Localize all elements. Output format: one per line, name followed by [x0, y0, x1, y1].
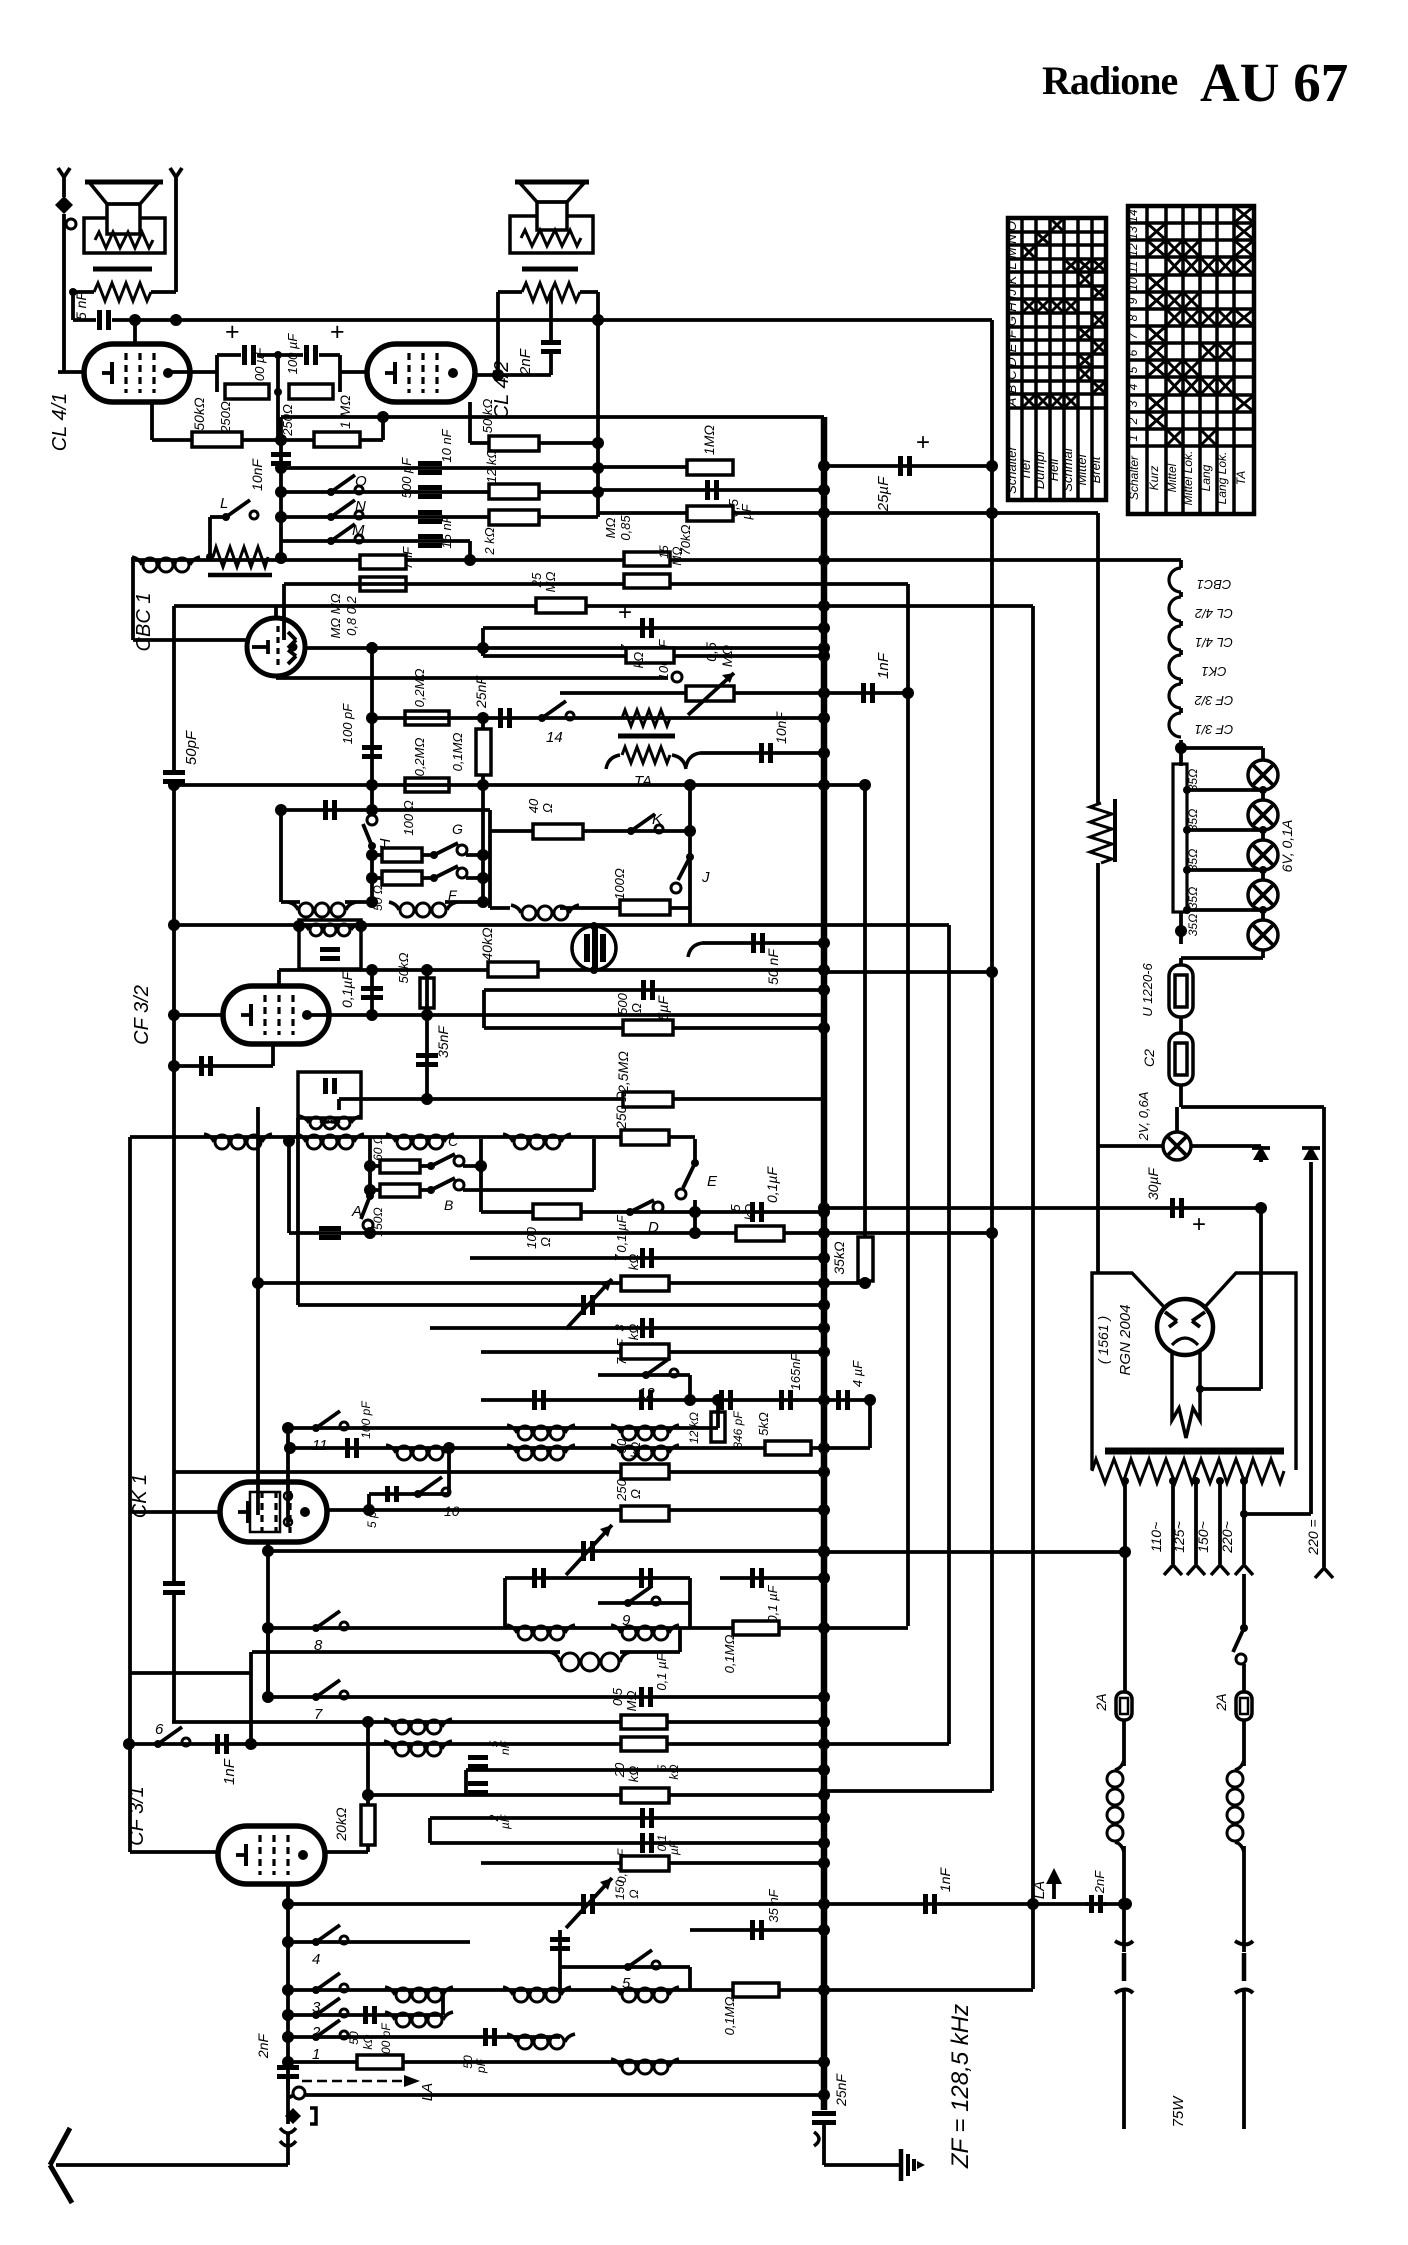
svg-text:0,2MΩ: 0,2MΩ	[412, 737, 427, 776]
x1324 vertical	[1322, 1107, 1326, 1567]
connector arrow 1	[1259, 1146, 1263, 1162]
svg-text:9: 9	[1126, 297, 1140, 304]
tap common x1125	[1121, 1477, 1129, 1485]
vertical x372 upper	[370, 642, 374, 785]
box CBC1 left	[131, 557, 135, 640]
wire row y517 with switch N	[281, 515, 598, 519]
CK1 grid row	[130, 1510, 220, 1514]
row y1212	[481, 1210, 824, 1214]
coupling network left rail	[215, 355, 219, 392]
vertical x284	[282, 584, 286, 640]
lamp 2V 0,6A	[1175, 1107, 1179, 1132]
resistor 70kOhm	[687, 506, 733, 521]
svg-text:50pF: 50pF	[183, 730, 200, 765]
svg-text:2A: 2A	[1093, 1693, 1109, 1711]
row y1795	[368, 1793, 824, 1797]
svg-text:6V, 0,1A: 6V, 0,1A	[1279, 820, 1295, 873]
svg-text:C2: C2	[1141, 1049, 1157, 1067]
capacitor 7nF	[418, 534, 442, 539]
row y902 coils	[288, 902, 298, 910]
resistor 250 Ohm left	[225, 384, 269, 399]
svg-text:Ω: Ω	[540, 803, 555, 813]
svg-text:15: 15	[657, 545, 671, 559]
svg-text:6: 6	[1126, 349, 1140, 356]
svg-text:Hell: Hell	[1046, 458, 1061, 482]
svg-text:4: 4	[312, 1951, 320, 1968]
svg-text:0,1 µF: 0,1 µF	[654, 1652, 669, 1690]
wire row y417	[281, 415, 824, 419]
svg-text:0,1MΩ: 0,1MΩ	[722, 1996, 737, 2035]
switch D	[626, 1208, 634, 1216]
row y1107	[1181, 1105, 1324, 1109]
svg-text:K: K	[1004, 274, 1019, 284]
bus bottom to ground	[824, 2163, 899, 2167]
pilot lamps 6V 0,1A	[1181, 746, 1263, 750]
svg-text:125~: 125~	[1171, 1521, 1187, 1553]
svg-text:35Ω: 35Ω	[1186, 914, 1200, 936]
LA arrow	[302, 2080, 408, 2083]
switch E vertical	[693, 1139, 697, 1160]
choke coil row y557	[132, 557, 142, 565]
node H1 x598	[592, 314, 604, 326]
svg-text:500: 500	[615, 992, 630, 1014]
capacitor 25nF	[498, 708, 503, 728]
svg-text:+: +	[330, 318, 345, 346]
switch C	[427, 1162, 435, 1170]
svg-text:IJ: IJ	[1004, 288, 1019, 299]
resistor 0,1MOhm vertical x483	[481, 718, 485, 785]
capacitor 1nF row y1744	[215, 1734, 220, 1754]
svg-text:4: 4	[1126, 383, 1140, 390]
row y1328	[430, 1326, 824, 1330]
svg-text:U 1220-6: U 1220-6	[1140, 962, 1155, 1016]
wire row y606	[174, 604, 1033, 608]
svg-text:O: O	[355, 473, 367, 490]
svg-text:ZF = 128,5 kHz: ZF = 128,5 kHz	[947, 2004, 974, 2169]
resistor 15MOhm	[624, 574, 670, 588]
jack circle	[293, 2087, 305, 2099]
row y990 cap 0,5uF	[484, 988, 824, 992]
capacitor 10nF row y753	[700, 751, 824, 755]
CBC1 cathode row y648	[305, 646, 824, 650]
resistor 50kOhm row y443	[489, 436, 539, 451]
capacitor x174 lower	[172, 1066, 176, 1582]
choke zigzag row y557	[213, 547, 268, 567]
vertical x949	[947, 925, 951, 1744]
svg-text:2nF: 2nF	[1092, 1870, 1107, 1894]
svg-text:10nF: 10nF	[249, 458, 265, 491]
svg-text:12 kΩ: 12 kΩ	[484, 449, 499, 484]
row y1747	[129, 1742, 824, 1746]
svg-text:2V, 0,6A: 2V, 0,6A	[1136, 1092, 1151, 1142]
svg-text:CF 3/2: CF 3/2	[131, 985, 153, 1045]
ballast taps	[1183, 786, 1191, 794]
break connector bottom	[814, 2132, 819, 2146]
row y878 resistor 50 Ohm	[372, 876, 434, 880]
vertical x470 y541-560	[468, 541, 472, 560]
svg-text:+: +	[1192, 1211, 1206, 1238]
LS2 secondary zigzag	[522, 283, 580, 301]
svg-text:20kΩ: 20kΩ	[333, 1807, 349, 1842]
wire row y584	[284, 582, 908, 586]
switch F	[434, 866, 458, 878]
svg-text:0,8 0,2: 0,8 0,2	[344, 595, 359, 636]
vertical x690	[688, 785, 692, 925]
switch table 2 (Schalter 1-14 / Kurz..TA)	[1128, 206, 1254, 514]
CL4/1 cathode drop	[150, 402, 154, 440]
switch K	[627, 827, 635, 835]
svg-text:kΩ: kΩ	[631, 652, 646, 669]
vertical x598 collector	[596, 320, 600, 517]
svg-text:Ω: Ω	[538, 1237, 553, 1247]
svg-text:N: N	[355, 498, 366, 515]
svg-text:Tief: Tief	[1018, 458, 1033, 481]
svg-text:CF 3/1: CF 3/1	[1195, 722, 1234, 737]
bus bottom cap 25nF	[812, 2111, 836, 2116]
svg-text:kΩ: kΩ	[742, 1204, 757, 1221]
svg-text:Dumpf: Dumpf	[1032, 449, 1047, 489]
svg-text:14: 14	[546, 729, 563, 746]
row y1904 long	[288, 1902, 1126, 1906]
svg-text:Ω: Ω	[628, 1489, 643, 1499]
svg-text:40kΩ: 40kΩ	[479, 927, 495, 961]
svg-text:1 MΩ: 1 MΩ	[337, 395, 353, 429]
svg-text:250: 250	[614, 1478, 629, 1501]
transformer primary zigzag	[1092, 1459, 1284, 1483]
capacitor 50nF	[702, 941, 824, 945]
LS2 cone	[519, 182, 585, 202]
svg-text:35Ω: 35Ω	[1186, 887, 1200, 909]
coil top edge	[320, 1121, 330, 1122]
svg-text:40: 40	[526, 798, 541, 813]
resistor 0,8MOhm	[360, 555, 406, 569]
svg-text:0,1MΩ: 0,1MΩ	[722, 1634, 737, 1673]
svg-text:100Ω: 100Ω	[612, 868, 627, 900]
svg-text:LA: LA	[419, 2083, 436, 2101]
svg-text:30µF: 30µF	[1145, 1166, 1161, 1200]
CF3/1 grid wire	[130, 1850, 218, 1854]
resistor 12kOhm vertical	[711, 1412, 725, 1442]
svg-text:100 Ω: 100 Ω	[401, 800, 416, 835]
svg-text:+: +	[916, 429, 930, 456]
svg-text:50 nF: 50 nF	[765, 948, 781, 985]
row y1028 resistor 500 Ohm	[484, 1026, 824, 1030]
CF3/2 grid cap	[174, 1064, 273, 1068]
switch 1 row y2037	[288, 2035, 560, 2039]
svg-text:CL 4/1: CL 4/1	[49, 393, 71, 452]
antenna trimmer	[581, 1894, 586, 1914]
svg-text:2: 2	[1126, 417, 1140, 425]
svg-text:2A: 2A	[1213, 1693, 1229, 1711]
resistor 250 Ohm right	[289, 384, 333, 399]
vertical x281 distribution	[279, 417, 283, 558]
CF3/1 anode row	[325, 1850, 368, 1854]
svg-text:AU 67: AU 67	[1200, 52, 1348, 113]
node H1 x135	[129, 314, 141, 326]
resistor 50kOhm vertical x427	[420, 978, 434, 1008]
resistor 0,1MOhm row y1628	[733, 1621, 779, 1635]
svg-text:MΩ: MΩ	[603, 518, 618, 539]
LS2 loop wires	[496, 292, 500, 375]
svg-text:35 nF: 35 nF	[766, 1888, 781, 1922]
svg-text:A: A	[351, 1203, 362, 1220]
row y1448 100pF coil	[290, 1446, 870, 1450]
LS2 magnet block	[537, 202, 567, 230]
row y1722	[172, 1720, 824, 1724]
wire row y560 main	[135, 558, 824, 562]
big coil row y1652	[550, 1652, 560, 1662]
vertical x258	[256, 1107, 260, 1283]
switch 4 row y1942	[288, 1940, 470, 1944]
svg-text:MΩ: MΩ	[543, 572, 558, 593]
row y1791	[824, 1789, 992, 1793]
svg-text:11: 11	[1126, 261, 1140, 273]
node	[275, 552, 287, 564]
vertical x281 lower	[279, 810, 283, 902]
svg-text:35Ω: 35Ω	[1186, 849, 1200, 871]
resistor 1MOhm	[314, 432, 360, 447]
capacitor 5nF	[73, 318, 96, 322]
svg-text:110~: 110~	[1148, 1522, 1164, 1553]
svg-text:60 Ω: 60 Ω	[371, 1135, 385, 1161]
resistor 25MOhm	[536, 598, 586, 613]
resistor 5kOhm row y1233	[736, 1226, 784, 1241]
capacitor 0,1uF row y1212	[750, 1202, 755, 1222]
capacitor 0,1uF row y1578b	[750, 1568, 755, 1588]
LS1 core bar	[93, 267, 152, 272]
rectifier filament leads arrow	[1172, 1352, 1200, 1438]
row y2095	[304, 2093, 824, 2097]
svg-text:E: E	[707, 1173, 718, 1190]
capacitor 50pF	[483, 2028, 488, 2046]
row y1930 35nF	[690, 1928, 824, 1932]
capacitor 10nF on x281	[271, 452, 291, 457]
connector diamond on grid lead	[55, 196, 73, 214]
power line x1124 junction	[1118, 1898, 1130, 1910]
resistor 250 Ohm row y1137	[621, 1130, 669, 1145]
capacitor 100uF right with +	[278, 353, 303, 357]
svg-text:kΩ: kΩ	[626, 1254, 641, 1271]
svg-text:35Ω: 35Ω	[1186, 809, 1200, 831]
svg-text:L: L	[220, 495, 228, 512]
row y1305	[298, 1303, 824, 1307]
svg-text:70kΩ: 70kΩ	[678, 524, 693, 555]
svg-text:M: M	[352, 522, 365, 539]
vertical x130 CK1	[128, 1137, 132, 1852]
row y970	[279, 968, 824, 972]
svg-text:+: +	[225, 318, 240, 346]
svg-text:10nF: 10nF	[773, 711, 789, 744]
network center rail	[276, 355, 280, 392]
svg-text:13: 13	[1126, 226, 1140, 240]
osc cap mid	[550, 1937, 570, 1942]
CK1 grid leads	[256, 1283, 260, 1515]
row y656 resistor 7kOhm	[483, 654, 824, 658]
row y1428 switch 11 and coils	[288, 1426, 718, 1430]
CF3/2 grid wire	[174, 1013, 223, 1017]
power line x1124 coil	[1115, 1760, 1124, 1770]
svg-text:12: 12	[1126, 243, 1140, 257]
fuse C2	[1169, 1033, 1193, 1085]
svg-text:Mittel Lok.: Mittel Lok.	[1181, 451, 1195, 506]
row y908 resistor 100 Ohm	[560, 906, 690, 910]
row y1990	[288, 1988, 1033, 1992]
switch J vertical	[686, 853, 694, 861]
svg-text:5: 5	[728, 1204, 743, 1212]
LS2 core bar	[522, 267, 578, 272]
svg-text:2nF: 2nF	[517, 348, 534, 376]
svg-text:75W: 75W	[1170, 2095, 1187, 2128]
switch B	[427, 1186, 435, 1194]
svg-text:Schmal: Schmal	[1060, 447, 1075, 491]
jack plug hooks	[280, 2128, 296, 2133]
vertical x289	[287, 1141, 291, 1233]
switch 10 branch	[367, 1494, 371, 1510]
switch 12 row y1375	[598, 1373, 690, 1377]
LS1 secondary zigzag	[94, 283, 151, 301]
resistor 40kOhm row y970	[488, 962, 538, 977]
svg-text:B: B	[1004, 384, 1019, 393]
capacitor 1nF row y1904	[923, 1894, 928, 1914]
svg-text:1nF: 1nF	[937, 1866, 953, 1892]
TA zigzag lower with hooks	[622, 747, 670, 763]
capacitor 0,1uF x372	[370, 970, 374, 1015]
power line x1124 fuse 2A	[1116, 1692, 1132, 1720]
svg-text:G: G	[452, 821, 463, 837]
resistor 20kOhm vertical	[366, 1722, 370, 1852]
capacitor 0,5uF	[705, 480, 710, 500]
coil row y908	[511, 905, 521, 913]
switch A vertical	[368, 1137, 372, 1196]
svg-text:14: 14	[1126, 209, 1140, 223]
svg-text:2,5MΩ: 2,5MΩ	[615, 1051, 631, 1094]
main bus x824	[821, 417, 828, 2110]
svg-text:MΩ: MΩ	[624, 1691, 639, 1712]
resistor 0,85MOhm	[624, 552, 670, 566]
svg-text:50: 50	[347, 2031, 361, 2045]
svg-text:TA: TA	[634, 773, 652, 790]
vertical x298 down	[296, 1118, 300, 1305]
vertical x594	[592, 1139, 596, 1190]
switch G	[434, 843, 458, 855]
row y2062	[288, 2060, 824, 2064]
trimmer row y1305	[581, 1295, 586, 1315]
switch 6 row y1744	[154, 1740, 162, 1748]
row y628 cap 100uF	[483, 626, 824, 630]
CK1 anode row y1510	[326, 1508, 824, 1512]
svg-text:10 nF: 10 nF	[439, 428, 454, 462]
resistor 0,2MOhm row y584	[360, 577, 406, 591]
svg-text:Lang: Lang	[1199, 464, 1213, 491]
vertical x865	[863, 785, 867, 1237]
row y1697 switch 7	[268, 1695, 824, 1699]
capacitor 2nF antenna	[277, 2065, 299, 2070]
ballast resistor vertical	[1173, 764, 1187, 912]
LS1 terminal stub left	[62, 177, 66, 197]
resistor 2kOhm	[489, 510, 539, 525]
LS2 transformer box	[510, 216, 593, 253]
svg-text:A: A	[1004, 398, 1019, 408]
svg-text:35Ω: 35Ω	[1186, 769, 1200, 791]
vertical x383 up	[381, 417, 385, 440]
svg-text:25: 25	[529, 572, 544, 588]
row y972 node	[818, 964, 830, 976]
power line x1244 coil	[1235, 1760, 1244, 1770]
wire row y492 with switch O	[281, 490, 598, 494]
capacitor 50pF in x174	[163, 770, 185, 775]
left loop verticals	[488, 810, 492, 908]
svg-text:0,85: 0,85	[618, 515, 633, 541]
TA zigzag upper	[622, 710, 670, 726]
CF3/1 cathode down	[286, 1884, 290, 2090]
svg-text:165nF: 165nF	[788, 1353, 803, 1391]
svg-text:kΩ: kΩ	[361, 2034, 375, 2049]
wire row y468	[281, 466, 598, 470]
svg-text:25nF: 25nF	[833, 2073, 849, 2107]
svg-text:50kΩ: 50kΩ	[396, 952, 411, 983]
LS1 secondary left wire	[71, 292, 75, 320]
svg-text:kΩ: kΩ	[626, 1766, 641, 1783]
row y1863	[481, 1861, 824, 1865]
trimmer row y1551	[268, 1549, 824, 1553]
vertical x1261 to rectifier filament	[1259, 1208, 1263, 1389]
ground symbol	[899, 2149, 904, 2181]
svg-text:Ω: Ω	[629, 1003, 644, 1013]
svg-text:Mittel: Mittel	[1074, 453, 1089, 485]
svg-text:nF: nF	[498, 1740, 512, 1755]
row y1673	[129, 1671, 252, 1675]
svg-text:CL 4/2: CL 4/2	[1194, 606, 1233, 621]
svg-text:CF 3/2: CF 3/2	[1194, 693, 1234, 708]
vertical x251	[249, 1652, 253, 1744]
capacitor 1nF row y693	[861, 683, 866, 703]
wire x174 upper	[172, 606, 176, 770]
LS1 secondary right wire	[151, 290, 176, 294]
row y1552 power	[824, 1550, 1125, 1554]
svg-text:C: C	[448, 1133, 459, 1149]
switch 2 row y2015	[288, 2013, 443, 2017]
tap 220 wire row y1514	[1240, 1510, 1248, 1518]
svg-text:2nF: 2nF	[255, 2032, 271, 2059]
row y810 with cap	[281, 808, 490, 812]
row y466 with 25uF	[824, 464, 992, 468]
svg-text:0,1 µF: 0,1 µF	[765, 1584, 780, 1622]
svg-text:5 nF: 5 nF	[73, 291, 89, 320]
svg-text:Schalter: Schalter	[1004, 445, 1019, 493]
capacitor 10nF row y468	[418, 461, 442, 466]
svg-text:0,1µF: 0,1µF	[764, 1166, 780, 1204]
row y925 long	[174, 923, 949, 927]
svg-text:LA: LA	[1031, 1881, 1048, 1899]
antenna lead	[286, 2079, 290, 2124]
svg-text:1nF: 1nF	[221, 1758, 238, 1785]
CBC1 anode wire up	[274, 606, 278, 618]
rectifier tube RGN 2004	[1157, 1299, 1213, 1355]
row y1652	[252, 1650, 560, 1654]
resistor 5kOhm row y1448	[765, 1441, 811, 1455]
switch L	[222, 513, 230, 521]
svg-text:kΩ: kΩ	[626, 1324, 641, 1341]
row y693 with pot 0,5MOhm	[560, 691, 824, 695]
row y718 switch 14	[372, 716, 824, 720]
capacitor 500pF	[418, 485, 442, 490]
row y513	[598, 511, 1098, 515]
resistor 0,2MOhm row y718	[405, 711, 449, 725]
wire to CL4/2	[340, 370, 367, 374]
svg-text:35kΩ: 35kΩ	[831, 1241, 847, 1275]
LS1 terminal stub right	[174, 177, 178, 292]
svg-text:100 pF: 100 pF	[359, 1401, 373, 1439]
